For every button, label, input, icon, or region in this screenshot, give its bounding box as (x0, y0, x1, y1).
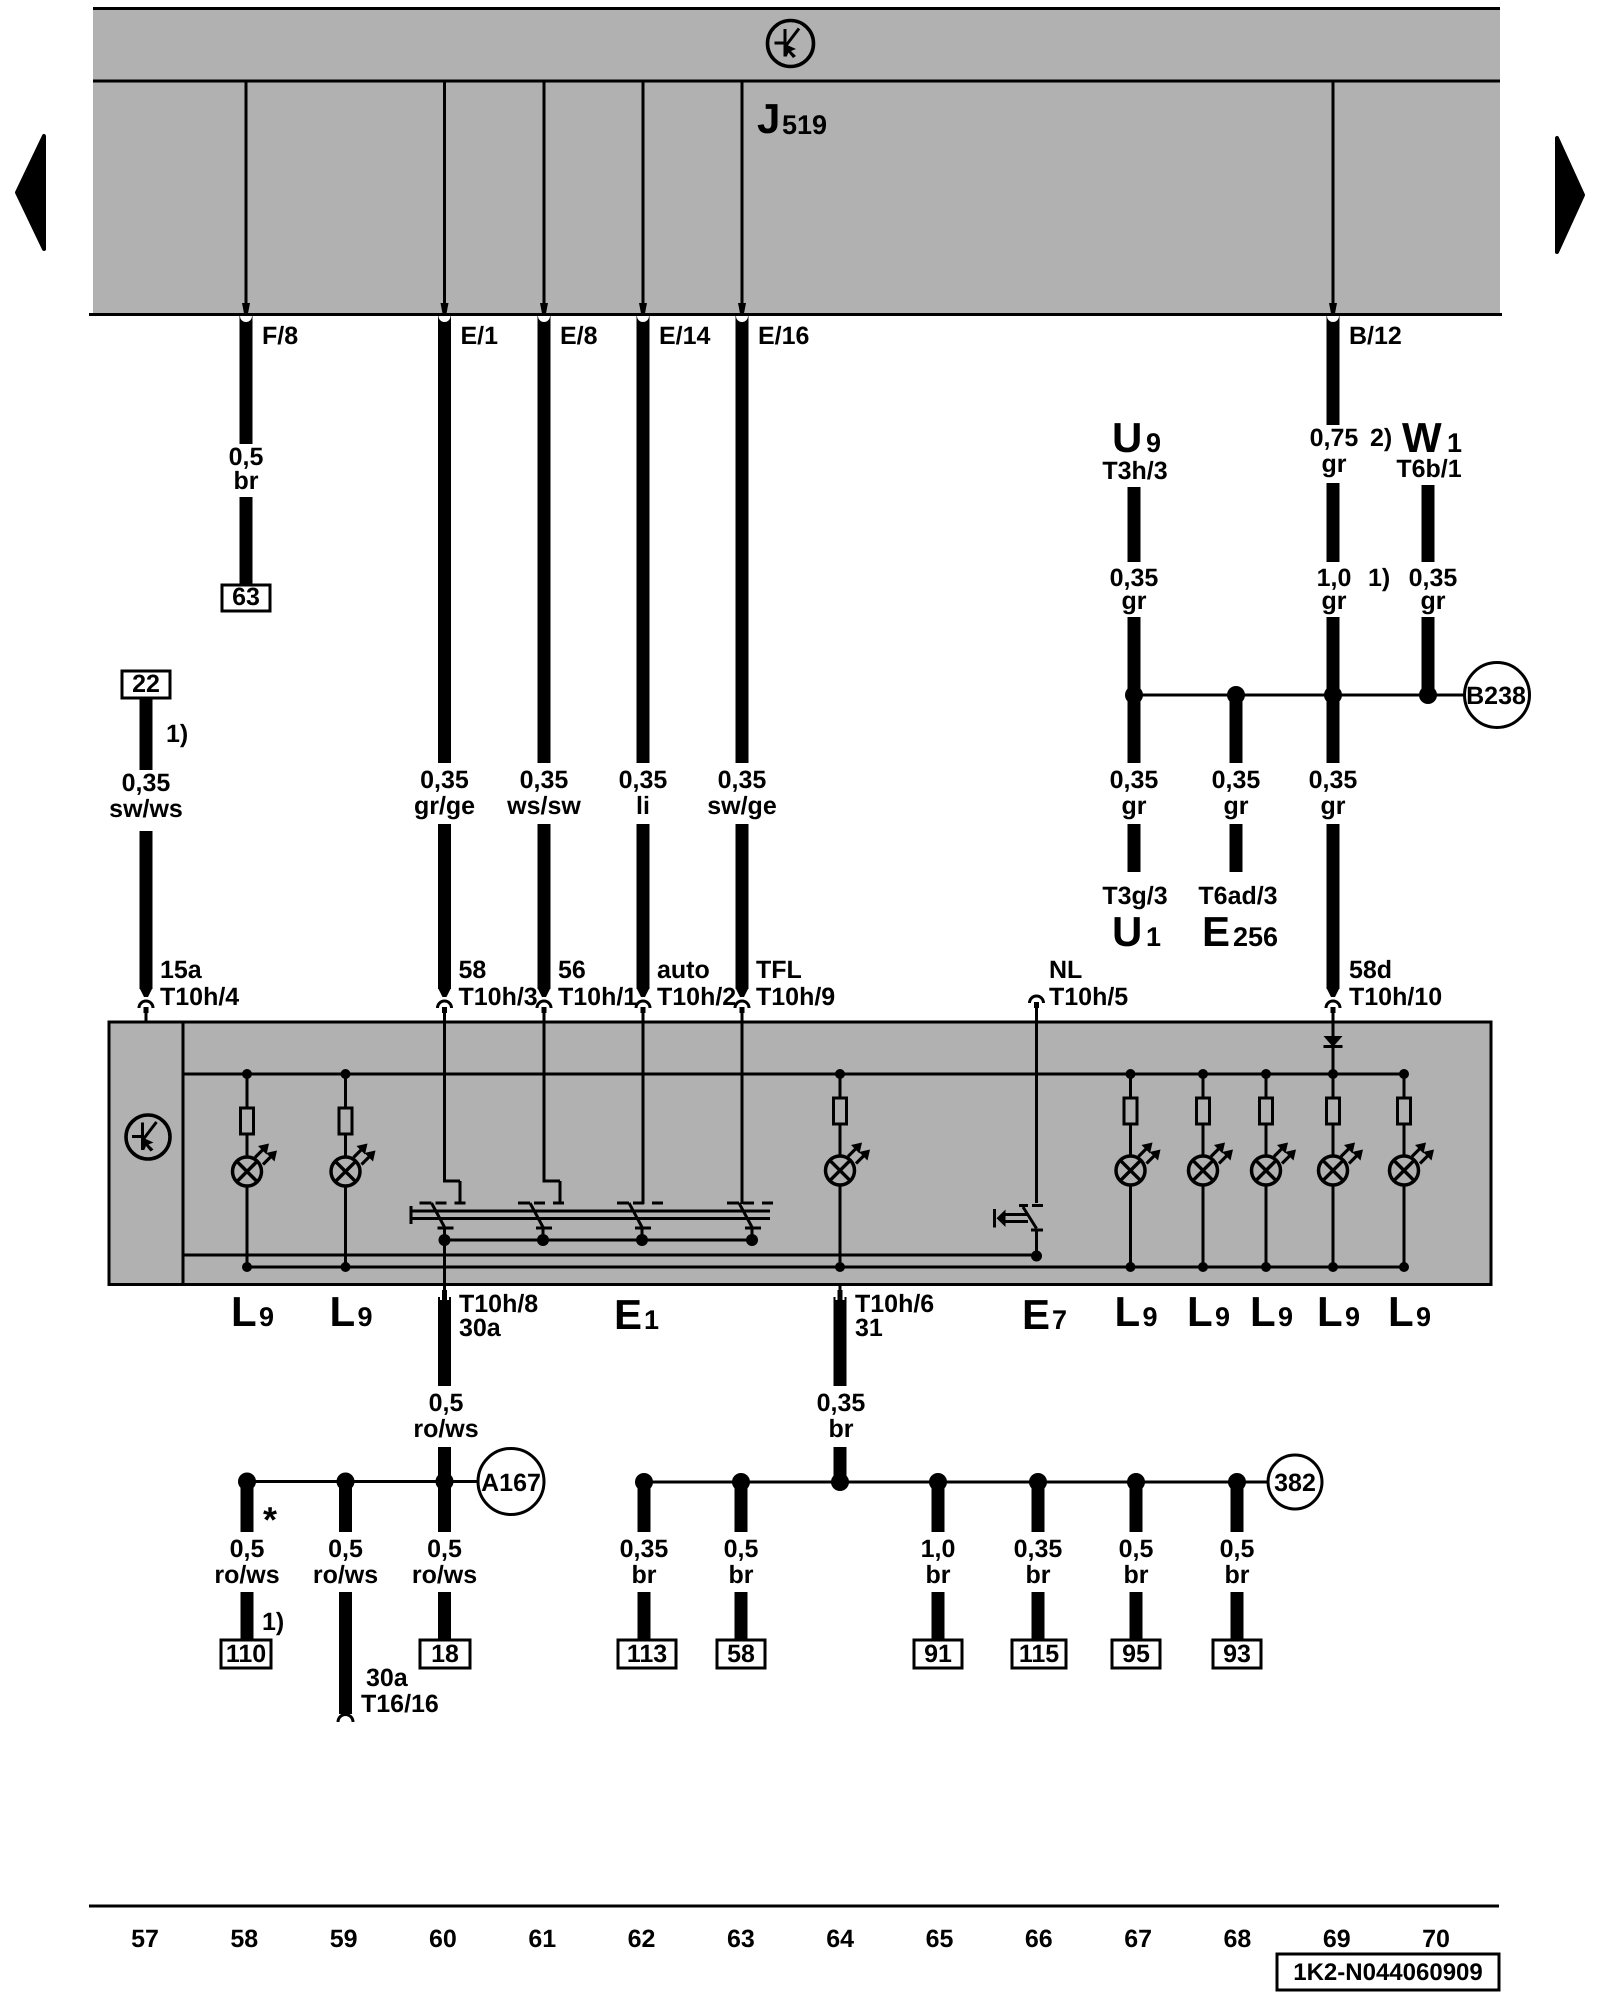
lamp return line B (247, 1266, 1404, 1269)
K symbol in lower box (126, 1115, 170, 1159)
terminal box 115 (1012, 1640, 1066, 1668)
svg-text:67: 67 (1124, 1925, 1152, 1953)
svg-text:E/14: E/14 (659, 322, 711, 350)
wire label 0,5 br (58) (724, 1535, 759, 1589)
J519 internal lead to pin E/1 (441, 81, 449, 316)
svg-text:0,5: 0,5 (230, 1535, 265, 1563)
lamp L9 #4 return lead (1126, 1185, 1136, 1272)
svg-text:30a: 30a (459, 1314, 502, 1342)
wire label 0,35 br (115) (1014, 1535, 1063, 1589)
svg-text:J: J (757, 95, 780, 142)
splice 382 (1268, 1455, 1322, 1509)
wire to 110 lower segment (241, 1592, 254, 1640)
svg-text:sw/ws: sw/ws (109, 795, 183, 823)
wire label 0,5 ro/ws (18) (412, 1535, 477, 1589)
pin label TFL T10h/9 (756, 956, 835, 1011)
lamp L9 #1 series resistor (241, 1074, 254, 1134)
svg-text:15a: 15a (160, 956, 203, 984)
svg-text:sw/ge: sw/ge (707, 792, 777, 820)
label E7 (1022, 1291, 1067, 1338)
wire 22 upper segment (140, 698, 153, 770)
svg-text:E: E (1202, 908, 1230, 955)
diagram number 1K2-N044060909 (1277, 1954, 1499, 1990)
svg-text:63: 63 (727, 1925, 755, 1953)
J519 internal lead to pin E/8 (540, 81, 548, 316)
svg-text:2): 2) (1370, 424, 1392, 452)
wire W1 upper segment (1422, 485, 1435, 562)
switch E1 input lead T10h/3 (443, 1022, 460, 1204)
wire B/12 segment 2 (1327, 483, 1340, 562)
svg-text:1: 1 (1146, 922, 1161, 952)
svg-text:58: 58 (230, 1925, 258, 1953)
svg-text:1): 1) (262, 1608, 284, 1636)
junction node br x=938 (929, 1473, 947, 1491)
svg-text:NL: NL (1049, 956, 1082, 984)
svg-text:31: 31 (855, 1314, 883, 1342)
svg-text:br: br (1124, 1561, 1149, 1589)
svg-text:30a: 30a (366, 1664, 409, 1692)
svg-text:115: 115 (1019, 1640, 1059, 1668)
wire T10h/8 upper segment (0,5 ro/ws) (438, 1300, 451, 1386)
wire label 0,5 br (229, 443, 264, 495)
lamp L9 #6 bulb (1252, 1124, 1297, 1185)
wire U9 lower segment (1128, 617, 1141, 695)
svg-text:0,5: 0,5 (1119, 1535, 1154, 1563)
svg-text:gr: gr (1321, 792, 1346, 820)
svg-text:L: L (1388, 1288, 1414, 1335)
switch E1 output lead to T10h/8 (443, 1240, 446, 1284)
svg-text:A167: A167 (481, 1469, 541, 1497)
lamp L9 #5 series resistor (1197, 1074, 1210, 1124)
wire to 110 upper segment (241, 1481, 254, 1532)
wire T10h/6 upper segment (0,35 br) (834, 1300, 847, 1386)
svg-text:63: 63 (232, 583, 260, 611)
junction node ro/ws x=444.5 (436, 1473, 454, 1491)
svg-text:E: E (614, 1291, 642, 1338)
svg-text:0,35: 0,35 (620, 1535, 669, 1563)
wire J519 B/12 segment 1 (0,75 gr) (1327, 316, 1339, 425)
svg-text:gr: gr (1224, 792, 1249, 820)
wire label 0,35 gr (E256) (1212, 766, 1261, 820)
wire to 113 upper segment (0,35 br) (638, 1482, 651, 1532)
wire label 1,0 gr with footnote 1) (1317, 564, 1391, 615)
wire E256 upper segment (0,35 gr) (1230, 695, 1243, 763)
terminal box 113 (618, 1640, 676, 1668)
wire label 0,35 gr (U9) (1110, 564, 1159, 615)
page arrow left (17, 136, 44, 249)
label L9 #6 (1317, 1288, 1360, 1335)
svg-text:U: U (1112, 414, 1142, 461)
svg-text:0,35: 0,35 (122, 769, 171, 797)
svg-text:br: br (1225, 1561, 1250, 1589)
junction node br x=1237 (1228, 1473, 1246, 1491)
pin label 58 T10h/3 (459, 956, 538, 1011)
pin label 15a T10h/4 (160, 956, 239, 1011)
svg-text:62: 62 (628, 1925, 656, 1953)
svg-text:E/1: E/1 (461, 322, 499, 350)
svg-text:69: 69 (1323, 1925, 1351, 1953)
splice line to B238 (1134, 694, 1465, 697)
wire T10h/9 lower segment (736, 824, 749, 989)
lamp L9 #1 bulb (233, 1134, 278, 1186)
svg-text:gr/ge: gr/ge (414, 792, 475, 820)
svg-text:T10h/9: T10h/9 (756, 983, 835, 1011)
label L9 #4 (1187, 1288, 1230, 1335)
pin label T10h/6 31 (855, 1290, 934, 1342)
svg-text:gr: gr (1322, 450, 1347, 478)
lamp L9 #6 bus junction (1261, 1069, 1271, 1079)
junction node T10h/6 (831, 1473, 849, 1491)
svg-text:61: 61 (528, 1925, 556, 1953)
svg-text:B/12: B/12 (1349, 322, 1402, 350)
lamp L9 #7 return lead (1328, 1185, 1338, 1272)
lamp L9 #7 bus junction (1328, 1069, 1338, 1079)
junction node br x=644 (635, 1473, 653, 1491)
svg-text:T10h/10: T10h/10 (1349, 983, 1442, 1011)
wire label 1,0 br (91) (921, 1535, 956, 1589)
wire label 0,35 br (113) (620, 1535, 669, 1589)
connector T10h/4 (139, 988, 153, 1022)
lamp L9 #2 bus junction (341, 1069, 351, 1079)
J519 internal lead to pin B/12 (1329, 81, 1337, 316)
svg-text:1): 1) (166, 720, 188, 748)
current track scale line (89, 1905, 1499, 1908)
svg-text:auto: auto (657, 956, 710, 984)
svg-text:L: L (330, 1288, 356, 1335)
svg-text:T3h/3: T3h/3 (1102, 457, 1167, 485)
lamp L9 #2 series resistor (339, 1074, 352, 1134)
wire T10h/6 lower segment (834, 1447, 847, 1482)
switch E1 output junction x=543 (537, 1234, 549, 1246)
lamp L9 #8 bulb (1390, 1124, 1435, 1185)
svg-text:T6ad/3: T6ad/3 (1198, 882, 1277, 910)
svg-text:L: L (1317, 1288, 1343, 1335)
svg-text:T10h/4: T10h/4 (160, 983, 239, 1011)
svg-text:br: br (926, 1561, 951, 1589)
wire U1 lower segment (1128, 824, 1141, 872)
label E1 (614, 1291, 659, 1338)
junction node br x=741 (732, 1473, 750, 1491)
label J519 (757, 95, 827, 142)
svg-text:9: 9 (259, 1302, 274, 1332)
wire T10h/3 lower segment (438, 824, 451, 989)
svg-text:T10h/2: T10h/2 (657, 983, 736, 1011)
svg-text:L: L (1250, 1288, 1276, 1335)
wire to 30a upper segment (339, 1481, 352, 1532)
pin label E/14 (659, 322, 711, 350)
label U1 (1112, 908, 1161, 955)
current track numbers 57-70 (131, 1925, 1450, 1953)
wire to 58 lower segment (735, 1592, 748, 1640)
wire T10h/1 lower segment (538, 824, 551, 989)
svg-text:22: 22 (132, 670, 160, 698)
lamp L9 #4 bulb (1116, 1124, 1161, 1185)
switch E1 output junction x=752 (746, 1234, 758, 1246)
label T6ad/3 (1198, 882, 1277, 910)
lamp supply bus (183, 1073, 1404, 1076)
svg-text:9: 9 (1215, 1302, 1230, 1332)
svg-text:br: br (234, 467, 259, 495)
connector T10h/9 (735, 988, 749, 1022)
connector T10h/6 (836, 1284, 845, 1316)
svg-text:ro/ws: ro/ws (313, 1561, 378, 1589)
lower box left divider (182, 1022, 185, 1284)
wire label 0,5 ro/ws (30a) (313, 1535, 378, 1589)
pin label T10h/8 30a (459, 1290, 538, 1342)
switch E1 input lead T10h/1 (543, 1022, 561, 1204)
svg-text:58d: 58d (1349, 956, 1392, 984)
svg-text:gr: gr (1122, 587, 1147, 615)
connector T10h/1 (537, 988, 551, 1022)
svg-text:F/8: F/8 (262, 322, 298, 350)
wire to 91 lower segment (932, 1592, 945, 1640)
svg-text:59: 59 (330, 1925, 358, 1953)
lamp L9 #1 bus junction (242, 1069, 252, 1079)
wire to 91 upper segment (1,0 br) (932, 1482, 945, 1532)
svg-text:gr: gr (1322, 587, 1347, 615)
svg-text:0,35: 0,35 (1309, 766, 1358, 794)
J519 internal lead to pin F/8 (242, 81, 250, 316)
connector T10h/8 (440, 1284, 449, 1316)
terminal box 110 (221, 1640, 271, 1668)
lamp L9 #4 bus junction (1126, 1069, 1136, 1079)
svg-text:L: L (231, 1288, 257, 1335)
svg-text:W: W (1402, 414, 1442, 461)
connector T10h/5 (NL) (1030, 996, 1044, 1022)
page arrow right (1557, 138, 1583, 252)
svg-text:58: 58 (459, 956, 487, 984)
junction node U9 at splice line (1125, 686, 1143, 704)
label L9 #1 (231, 1288, 274, 1335)
junction node br x=1038 (1029, 1473, 1047, 1491)
svg-text:ro/ws: ro/ws (214, 1561, 279, 1589)
splice A167 (478, 1449, 544, 1515)
wire E256 lower segment (1230, 824, 1243, 872)
wire label 0,35 sw/ge (707, 766, 777, 820)
footnote 1) at wire 22 (166, 720, 188, 748)
switch E7 actuation arrow (995, 1209, 1029, 1228)
svg-text:0,35: 0,35 (520, 766, 569, 794)
wire U1 upper segment (0,35 gr) (1128, 695, 1141, 763)
J519 internal bus line (93, 80, 1500, 83)
pin label E/1 (461, 322, 499, 350)
pin label 58d T10h/10 (1349, 956, 1442, 1011)
wire label 0,35 li (619, 766, 668, 820)
svg-text:L: L (1187, 1288, 1213, 1335)
svg-text:*: * (263, 1499, 277, 1540)
terminal box 91 (914, 1640, 962, 1668)
footnote 1) at wire 110 (262, 1608, 284, 1636)
label L9 #2 (330, 1288, 373, 1335)
lamp L9 #2 bulb (331, 1134, 376, 1186)
svg-text:9: 9 (1278, 1302, 1293, 1332)
lamp L9 #5 bulb (1189, 1124, 1234, 1185)
svg-text:0,75: 0,75 (1310, 424, 1359, 452)
wire B/12 segment 5 (1327, 824, 1340, 989)
svg-text:E: E (1022, 1291, 1050, 1338)
svg-text:B238: B238 (1466, 682, 1526, 710)
svg-text:91: 91 (924, 1640, 952, 1668)
svg-text:E/8: E/8 (560, 322, 598, 350)
lamp return line A (183, 1254, 1037, 1257)
svg-text:64: 64 (826, 1925, 854, 1953)
svg-text:113: 113 (627, 1640, 667, 1668)
svg-text:0,5: 0,5 (328, 1535, 363, 1563)
lamp L9 #6 series resistor (1260, 1074, 1273, 1124)
switch E1 output junction x=444.5 (439, 1234, 451, 1246)
lamp L9 #5 bus junction (1198, 1069, 1208, 1079)
svg-text:68: 68 (1224, 1925, 1252, 1953)
switch E1 contact at x=752 (727, 1203, 778, 1240)
switch E1 contact at x=444.5 (420, 1203, 471, 1240)
svg-text:0,5: 0,5 (429, 1389, 464, 1417)
lamp L9 #3 return lead (835, 1185, 845, 1272)
svg-text:70: 70 (1422, 1925, 1450, 1953)
terminal box 22 (122, 670, 170, 698)
svg-text:0,5: 0,5 (724, 1535, 759, 1563)
switch E1 input lead T10h/2 (642, 1022, 645, 1204)
label W1 (1402, 414, 1462, 461)
junction node ro/ws x=345.5 (337, 1473, 355, 1491)
svg-text:65: 65 (926, 1925, 954, 1953)
label L9 #5 (1250, 1288, 1293, 1335)
wire to 95 lower segment (1130, 1592, 1143, 1640)
svg-text:0,35: 0,35 (718, 766, 767, 794)
wire T10h/8 lower segment (438, 1447, 451, 1482)
svg-text:0,5: 0,5 (427, 1535, 462, 1563)
wire label 0,35 gr (U1) (1110, 766, 1159, 820)
wire to 93 lower segment (1231, 1592, 1244, 1640)
svg-text:18: 18 (431, 1640, 459, 1668)
svg-text:ws/sw: ws/sw (506, 792, 581, 820)
lamp L9 #8 series resistor (1398, 1074, 1411, 1124)
switch E1 contact at x=642 (617, 1203, 668, 1240)
wire to 115 lower segment (1032, 1592, 1045, 1640)
svg-text:95: 95 (1122, 1640, 1150, 1668)
junction node E256 at splice line (1227, 686, 1245, 704)
svg-text:T10h/3: T10h/3 (459, 983, 538, 1011)
light switch / lamp unit box (109, 1022, 1491, 1285)
lamp L9 #8 bus junction (1399, 1069, 1409, 1079)
wire to 115 upper segment (0,35 br) (1032, 1482, 1045, 1532)
wire label 0,5 br (93) (1220, 1535, 1255, 1589)
svg-text:br: br (829, 1415, 854, 1443)
wire to 93 upper segment (0,5 br) (1231, 1482, 1244, 1532)
svg-text:E/16: E/16 (758, 322, 809, 350)
junction node W1 at splice line (1419, 686, 1437, 704)
svg-text:58: 58 (727, 1640, 755, 1668)
svg-text:9: 9 (1146, 428, 1161, 458)
wire W1 lower segment (1422, 617, 1435, 695)
wire B/12 segment 3 (1327, 617, 1340, 695)
wire label 0,35 ws/sw (506, 766, 581, 820)
lamp L9 #6 return lead (1261, 1185, 1271, 1272)
wire F/8 lower segment (240, 497, 253, 586)
connector T10h/10 (1326, 988, 1340, 1022)
K symbol in J519 (768, 21, 814, 67)
connector T10h/2 (636, 988, 650, 1022)
svg-text:U: U (1112, 908, 1142, 955)
svg-text:519: 519 (782, 110, 827, 140)
pin label auto T10h/2 (657, 956, 736, 1011)
label T3g/3 (1102, 882, 1167, 910)
svg-text:br: br (632, 1561, 657, 1589)
wire label 0,35 gr/ge (414, 766, 475, 820)
svg-text:1K2-N044060909: 1K2-N044060909 (1293, 1959, 1482, 1986)
splice line to 382 (644, 1481, 1268, 1484)
svg-text:0,35: 0,35 (817, 1389, 866, 1417)
lamp L9 #3 bulb (826, 1124, 871, 1185)
svg-text:9: 9 (1345, 1302, 1360, 1332)
terminal box 63 (222, 583, 270, 611)
wire J519 T10h/2 upper segment (0,35 li) (637, 316, 649, 763)
wire J519 T10h/3 upper segment (0,35 gr/ge) (439, 316, 451, 763)
pin label E/16 (758, 322, 809, 350)
pin label 56 T10h/1 (558, 956, 637, 1011)
svg-text:56: 56 (558, 956, 586, 984)
terminal box 58 (717, 1640, 765, 1668)
switch E1 output junction x=642 (636, 1234, 648, 1246)
wire B/12 segment 4 (0,35 gr) (1327, 695, 1340, 763)
wire label 0,5 ro/ws (110) (214, 1535, 279, 1589)
wire J519 T10h/9 upper segment (0,35 sw/ge) (736, 316, 748, 763)
pin label B/12 (1349, 322, 1402, 350)
svg-text:T3g/3: T3g/3 (1102, 882, 1167, 910)
svg-text:ro/ws: ro/ws (413, 1415, 478, 1443)
label L9 #3 (1115, 1288, 1158, 1335)
svg-text:T6b/1: T6b/1 (1396, 455, 1461, 483)
wire to 30a lower segment (339, 1592, 352, 1714)
label L9 #7 (1388, 1288, 1431, 1335)
wire to 95 upper segment (0,5 br) (1130, 1482, 1143, 1532)
wire label 0,5 br (95) (1119, 1535, 1154, 1589)
splice B238 (1465, 663, 1530, 728)
svg-text:gr: gr (1421, 587, 1446, 615)
lamp L9 #5 return lead (1198, 1185, 1208, 1272)
wire label 0,35 br (T10h/6) (817, 1389, 866, 1443)
svg-text:110: 110 (226, 1640, 266, 1668)
label T3h/3 (1102, 457, 1167, 485)
svg-text:0,35: 0,35 (420, 766, 469, 794)
J519 internal lead to pin E/16 (738, 81, 746, 316)
J519 internal lead to pin E/14 (639, 81, 647, 316)
svg-text:1: 1 (1447, 428, 1462, 458)
lamp L9 #1 return lead (242, 1186, 252, 1272)
lamp L9 #7 series resistor (1327, 1074, 1340, 1124)
wire T10h/2 lower segment (637, 824, 650, 989)
svg-text:li: li (636, 792, 650, 820)
wire label 0,35 sw/ws (109, 769, 183, 823)
switch E1 input lead T10h/9 (741, 1022, 744, 1204)
diode on 58d lead (1324, 1022, 1343, 1074)
lamp L9 #3 series resistor (834, 1074, 847, 1124)
svg-text:0,5: 0,5 (1220, 1535, 1255, 1563)
svg-text:66: 66 (1025, 1925, 1053, 1953)
junction node on B/12 at splice line (1324, 686, 1342, 704)
svg-text:L: L (1115, 1288, 1141, 1335)
label U9 (1112, 414, 1161, 461)
svg-text:256: 256 (1233, 922, 1278, 952)
svg-text:0,35: 0,35 (1014, 1535, 1063, 1563)
svg-text:382: 382 (1274, 1469, 1316, 1497)
svg-text:1): 1) (1368, 564, 1390, 592)
svg-text:ro/ws: ro/ws (412, 1561, 477, 1589)
svg-text:T10h/1: T10h/1 (558, 983, 637, 1011)
label E256 (1202, 908, 1278, 955)
svg-text:TFL: TFL (756, 956, 802, 984)
svg-text:0,35: 0,35 (1212, 766, 1261, 794)
footnote * at wire 110 (263, 1499, 277, 1540)
